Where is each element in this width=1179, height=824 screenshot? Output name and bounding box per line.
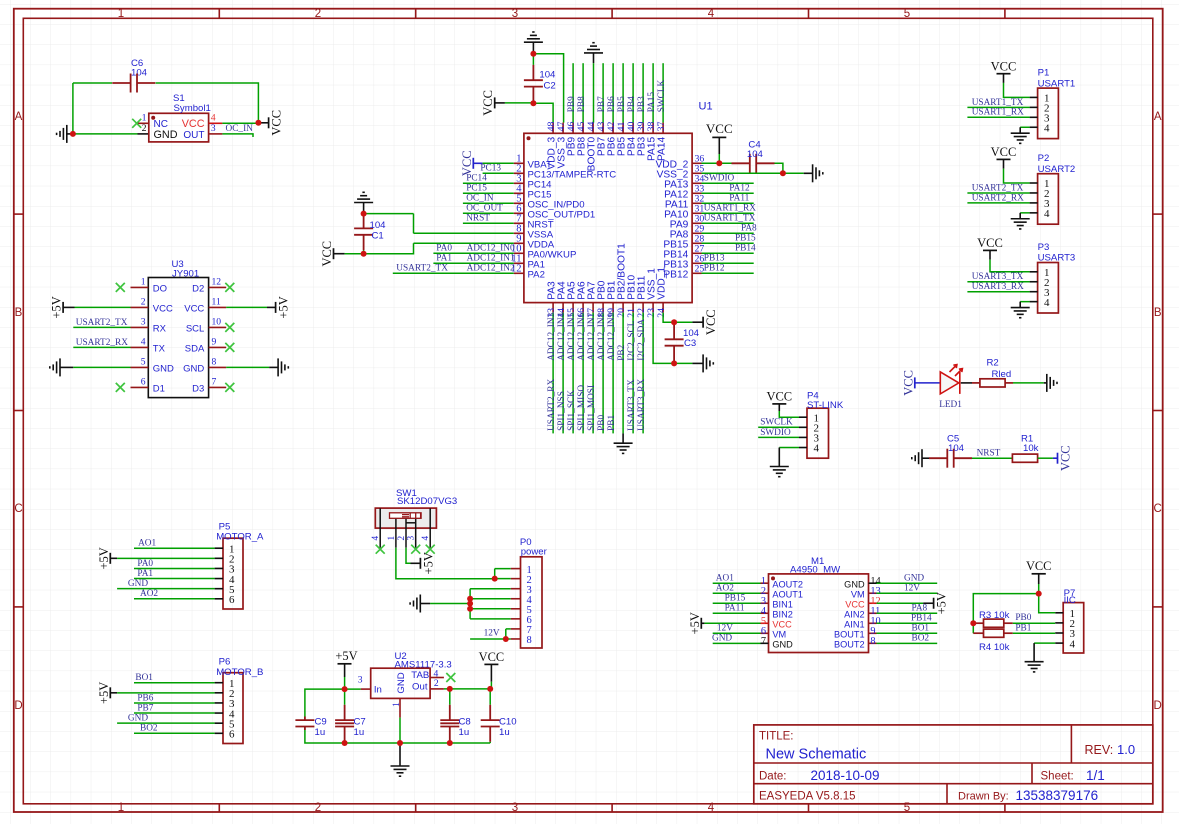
wire pin22 down [642,313,644,434]
U3 pin 1 stub [131,286,149,288]
wire VCC to LED1 [915,382,941,384]
svg-text:Symbol1: Symbol1 [174,103,211,114]
svg-text:GND: GND [904,574,924,584]
junction VCC pin36 [716,160,722,166]
P2 pin 1 stub [1030,182,1038,184]
wire pin4 [463,192,514,194]
svg-text:3: 3 [512,8,518,20]
+5V stub [267,306,276,308]
svg-text:PA1: PA1 [137,569,153,579]
VCC flag stub [258,122,268,124]
M1 pin 10 stub [869,622,877,624]
wire pin26 [702,262,754,264]
svg-text:3: 3 [211,123,216,134]
svg-text:C2: C2 [544,80,556,91]
svg-text:VCC: VCC [270,110,284,136]
ground stub [67,133,73,135]
svg-text:1u: 1u [459,727,470,738]
svg-text:R3 10k: R3 10k [979,610,1010,621]
svg-text:SPI1_MOSI: SPI1_MOSI [587,385,597,431]
svg-text:VCC: VCC [766,390,792,404]
connector P1 USART1 [1038,88,1059,139]
U3 pin 5 stub [131,366,149,368]
P6 pin 3 stub [215,702,223,704]
U1 pin 35 stub [692,172,701,174]
svg-text:4: 4 [708,802,715,814]
svg-text:3: 3 [512,802,518,814]
svg-text:PB0: PB0 [597,415,607,431]
ground stub [1019,213,1021,219]
wire R3 to P7 pin2 [1013,622,1055,624]
svg-text:4: 4 [211,113,216,124]
wire [490,682,492,689]
wire pin5 [463,202,514,204]
VCC stub [334,253,345,255]
power flag VCC at C4 [712,136,726,138]
svg-text:USART2_TX: USART2_TX [76,318,128,328]
P1 pin 1 stub [1030,96,1038,98]
ground stub [532,42,534,54]
U1 pin 2 stub [514,172,524,174]
SW1 common link [406,522,416,524]
svg-text:SWCLK: SWCLK [760,418,793,428]
wire ground bus [345,742,491,744]
U1 pin 28 stub [692,242,701,244]
P4 pin 2 stub [799,426,807,428]
U1 pin 21 stub [632,303,634,313]
capacitor C6 [112,74,155,93]
wire P0 pin7 [506,628,511,630]
ground stub [1019,127,1021,133]
no-connect SW1 [411,545,420,554]
wire OC_IN [222,134,253,137]
U1 pin 26 stub [692,262,701,264]
zone ticks top/bottom [218,9,220,19]
capacitor C8 [449,689,451,705]
svg-text:PA15: PA15 [647,92,657,113]
svg-text:AO2: AO2 [140,589,158,599]
svg-text:PB12: PB12 [704,263,725,273]
wire P0 pin4 [470,598,511,600]
junction C3 top [671,319,677,325]
svg-text:GND: GND [712,634,732,644]
M1 pin 2 stub [761,592,769,594]
svg-text:PB6: PB6 [607,96,617,112]
wire pin35 [702,172,804,174]
P2 pin 4 stub [1030,212,1038,214]
zone ticks left/right [14,213,23,215]
svg-text:BO1: BO1 [912,624,930,634]
svg-text:A: A [15,111,23,123]
svg-text:1u: 1u [499,727,510,738]
svg-text:VCC: VCC [977,236,1003,250]
R3 lead right [1004,622,1013,624]
svg-text:P2: P2 [1038,153,1050,164]
svg-text:VCC: VCC [184,304,204,315]
wire pin2 [117,557,215,559]
svg-text:SPI1_SCK: SPI1_SCK [567,390,577,431]
wire VCC to C2 [505,102,534,104]
svg-text:PA8: PA8 [912,604,928,614]
svg-text:PA2: PA2 [528,270,545,281]
wire U3 pin2 [75,306,131,308]
U3 pin 7 stub [209,386,227,388]
svg-text:PB13: PB13 [704,253,725,263]
svg-text:OC_IN: OC_IN [466,193,494,203]
wire P0 pin5 [470,608,511,610]
U1 pin 5 stub [514,202,524,204]
wire pin29 [702,232,754,234]
wire pin8 VSSA [414,232,514,234]
svg-text:USART1_TX: USART1_TX [704,213,756,223]
svg-text:12V: 12V [484,629,500,639]
svg-text:PB7: PB7 [597,96,607,112]
svg-text:NRST: NRST [977,448,1001,458]
no-connect U3 pin12 [225,283,234,292]
svg-text:GND: GND [844,580,865,590]
svg-text:+5V: +5V [277,296,291,318]
P1 pin 3 stub [1030,116,1038,118]
+5V stub [411,562,421,564]
junction C3 bottom [671,360,677,366]
P3 pin 1 stub [1030,271,1038,273]
svg-text:VCC: VCC [845,600,865,610]
no-connect S1 pin1 [132,119,141,128]
P5 pin 3 stub [215,567,223,569]
M1 pin 11 stub [869,612,877,614]
svg-text:6: 6 [229,594,235,606]
svg-text:BOUT2: BOUT2 [834,640,865,650]
U1 pin 31 stub [692,212,701,214]
junction at ground [70,131,76,137]
wire C5 to R1 [972,457,1012,459]
svg-text:PA11: PA11 [725,604,745,614]
svg-text:ADC12_IN6: ADC12_IN6 [577,312,587,360]
wire pin39 up [642,63,644,122]
M1 pin 7 stub [761,642,769,644]
svg-text:LED1: LED1 [939,400,962,410]
svg-text:4: 4 [1044,122,1050,134]
power flag VCC at C2 [494,97,496,108]
U2 pin 1 stub [399,698,401,717]
svg-text:1: 1 [387,536,397,541]
wire GND down [399,718,401,743]
svg-text:1u: 1u [354,727,365,738]
U1 pin 15 stub [572,303,574,313]
U1 pin 3 stub [514,182,524,184]
P0 pin 2 stub [511,578,521,580]
U1 pin 37 stub [662,123,664,134]
svg-text:GND: GND [772,640,793,650]
resistor R1 [1012,454,1037,462]
wire M1 pin13 [877,592,938,594]
wire SW1 pin2 [406,548,411,564]
wire pin2 [483,172,514,174]
U1 pin 27 stub [692,252,701,254]
svg-text:BO2: BO2 [140,724,158,734]
wire U3 pin11 [226,306,267,308]
M1 pin 9 stub [869,632,877,634]
svg-text:PC14: PC14 [466,173,487,183]
svg-text:D3: D3 [192,384,204,395]
wire to C9 [305,689,345,716]
wire pin36 [702,162,733,164]
no-connect TAB [446,673,455,682]
svg-text:2: 2 [315,8,321,20]
wire +5V down [344,677,346,689]
U1 pin 29 stub [692,232,701,234]
wire pin2 [967,281,1029,283]
resistor R3 [984,619,1004,627]
connector P5 MOTOR_A [223,538,243,609]
P6 pin 6 stub [215,732,223,734]
junction VCC node [255,120,261,126]
wire C3 to VCC [674,321,692,323]
capacitor C1 [363,250,365,254]
svg-text:BOUT1: BOUT1 [834,630,865,640]
svg-text:AOUT1: AOUT1 [772,590,803,600]
wire pin38 up [652,63,654,122]
wire C6 right to VCC node [156,83,259,123]
svg-text:PB9: PB9 [567,96,577,112]
svg-text:USART2: USART2 [1038,164,1076,175]
wire pin33 [702,192,754,194]
wire M1 pin8 [877,642,938,644]
wire M1 pin4 [713,612,761,614]
junction [447,740,453,746]
connector P2 USART2 [1038,174,1059,225]
P0 pin 3 stub [511,588,521,590]
svg-text:Sheet:: Sheet: [1041,770,1074,782]
U2 pin 3 stub [361,688,371,690]
svg-text:PA0: PA0 [137,559,153,569]
SW1 pin 2 [405,519,407,548]
wire [345,253,364,255]
U1 pin 19 stub [612,303,614,313]
wire pin31 [702,212,754,214]
capacitor C10 [489,689,491,705]
U3 pin 10 stub [209,326,227,328]
wire pin4 [1020,126,1029,128]
P5 pin 6 stub [215,598,223,600]
capacitor C7 [344,689,346,705]
svg-text:DO: DO [153,284,167,295]
wire M1 pin6 [713,632,761,634]
M1 pin 12 stub [869,602,877,604]
ground stub [622,433,624,443]
no-connect SW1 [376,545,385,554]
wire to In [345,688,361,690]
junction C1 top [361,211,367,217]
svg-text:ADC12_IN9: ADC12_IN9 [607,312,617,360]
svg-text:104: 104 [948,443,965,454]
wire U3 pin4 [73,346,130,348]
wire pin6 [134,598,215,600]
svg-text:ST-LINK: ST-LINK [807,400,844,411]
ground above C1 [354,192,373,202]
svg-text:VCC: VCC [991,59,1017,73]
ground right of C3 [703,354,713,372]
svg-text:IIC: IIC [1064,595,1076,606]
svg-text:+5V: +5V [688,612,702,634]
U1 pin 41 stub [622,123,624,134]
SW1 pin 4R [429,508,431,547]
M1 pin 5 stub [761,622,769,624]
wire VCC down [1038,584,1040,594]
capacitor C5 [929,449,972,468]
svg-text:B: B [15,307,23,319]
U1 pin 12 stub [514,272,524,274]
R4 lead right [1004,632,1013,634]
wire U3 pin8 [226,366,269,368]
svg-text:PA14: PA14 [657,136,668,160]
P6 pin 4 stub [215,712,223,714]
svg-text:AO2: AO2 [716,584,734,594]
U1 pin 47 stub [562,123,564,134]
ground stub [804,172,813,174]
P6 pin 1 stub [215,682,223,684]
ground stub [1033,643,1035,662]
junction [342,740,348,746]
wire P0 pin1 [495,568,511,570]
svg-text:ADC12_IN5: ADC12_IN5 [567,312,577,360]
wire LED to R2 [961,382,972,384]
connector P4 ST-LINK [807,408,829,458]
svg-text:USART3_RX: USART3_RX [972,282,1024,292]
svg-text:JY901: JY901 [172,269,199,280]
wire to U1 pin48 [533,103,553,122]
ground stub [420,603,430,605]
U1 pin 38 stub [652,123,654,134]
power flag VCC at LED1 [914,377,916,388]
U1 pin 8 stub [514,232,524,234]
svg-text:9: 9 [212,336,217,347]
no-connect U3 pin1 [116,283,125,292]
wire Out to VCC [444,688,490,690]
wire pin40 up [632,63,634,122]
junction 12V [503,636,509,642]
svg-text:power: power [521,546,548,557]
svg-text:BIN1: BIN1 [772,600,792,610]
svg-text:PB5: PB5 [617,96,627,112]
svg-text:PC13: PC13 [480,163,501,173]
svg-text:VCC: VCC [1026,559,1051,573]
svg-text:SPI1_NSS: SPI1_NSS [557,391,567,431]
svg-text:VCC: VCC [182,118,205,130]
svg-text:AO1: AO1 [716,574,734,584]
svg-text:P3: P3 [1038,242,1050,253]
wire pin19 down [612,313,614,434]
connector P6 MOTOR_B [223,673,243,744]
+5V stub [701,622,704,624]
wire pin12 [393,272,514,274]
ground left of C5 [912,449,922,467]
P6 pin 5 stub [215,722,223,724]
svg-text:3: 3 [358,674,363,685]
wire M1 pin11 [877,612,938,614]
U1 pin 4 stub [514,192,524,194]
svg-text:USART3: USART3 [1038,253,1076,264]
no-connect SW1 [426,545,435,554]
connector P7 IIC [1063,603,1084,653]
U1 pin 32 stub [692,202,701,204]
ground stub [269,366,278,368]
ground at P1 [1011,133,1030,143]
wire pin13 down [552,313,554,434]
svg-text:7: 7 [212,376,217,387]
wire P7 pin1 [1039,594,1056,613]
U1 pin 25 stub [692,272,701,274]
VCC stub [1053,457,1058,459]
svg-text:1: 1 [118,8,124,20]
wire P0 pin3 [470,588,511,590]
+5V stub [63,306,74,308]
P4 pin 3 stub [799,436,807,438]
svg-text:GND: GND [183,364,204,375]
svg-text:AOUT2: AOUT2 [772,580,803,590]
wire C9 bottom [305,730,345,743]
svg-text:10: 10 [212,316,222,327]
wire M1 pin1 [713,582,761,584]
svg-text:12V: 12V [904,584,920,594]
U1 pin 23 stub [652,303,654,313]
svg-text:VCC: VCC [901,370,915,396]
ground at P7 [1025,662,1044,672]
svg-text:USART1_RX: USART1_RX [704,203,756,213]
wire P0 pin8 [470,638,511,640]
power flag +5V at U3 pin11 [275,302,277,313]
U1 pin 40 stub [632,123,634,134]
svg-text:AIN1: AIN1 [844,620,864,630]
svg-text:2: 2 [434,678,439,689]
svg-text:U1: U1 [699,101,713,113]
ground at P2 [1011,219,1030,229]
svg-text:3: 3 [407,536,417,541]
svg-text:12V: 12V [717,624,733,634]
S1 pin 1 stub [138,122,149,124]
svg-text:D2: D2 [192,284,204,295]
ground below U2 [391,766,410,776]
wire pin3 [134,702,215,704]
M1 pin 3 stub [761,602,769,604]
svg-text:11: 11 [212,296,221,307]
ground above C2 [524,32,543,42]
P0 pin 5 stub [511,608,521,610]
ground above pin44 [584,43,603,53]
svg-text:1: 1 [142,113,147,124]
wire SW1 pin1 to P0 [396,548,495,579]
svg-text:R2: R2 [987,357,999,368]
wire pin44 [593,63,595,122]
wire R4 to P7 pin3 [1013,632,1055,634]
svg-text:In: In [374,684,382,695]
svg-text:I2C2_SDA: I2C2_SDA [637,319,647,361]
P3 pin 3 stub [1030,291,1038,293]
svg-text:VM: VM [772,630,786,640]
wire vertical to C1 top [413,214,415,234]
svg-text:4: 4 [1044,297,1050,309]
P1 pin 4 stub [1030,126,1038,128]
svg-text:+5V: +5V [421,552,435,574]
svg-text:I2C2_SCL: I2C2_SCL [627,320,637,361]
power flag +5V at P6 [109,687,111,698]
wire M1 pin9 [877,632,938,634]
svg-text:+5V: +5V [50,296,64,318]
svg-text:SPI1_MISO: SPI1_MISO [577,385,587,431]
junction Out [447,686,453,692]
svg-text:AIN2: AIN2 [844,610,864,620]
SW1 knob marks [402,513,421,519]
